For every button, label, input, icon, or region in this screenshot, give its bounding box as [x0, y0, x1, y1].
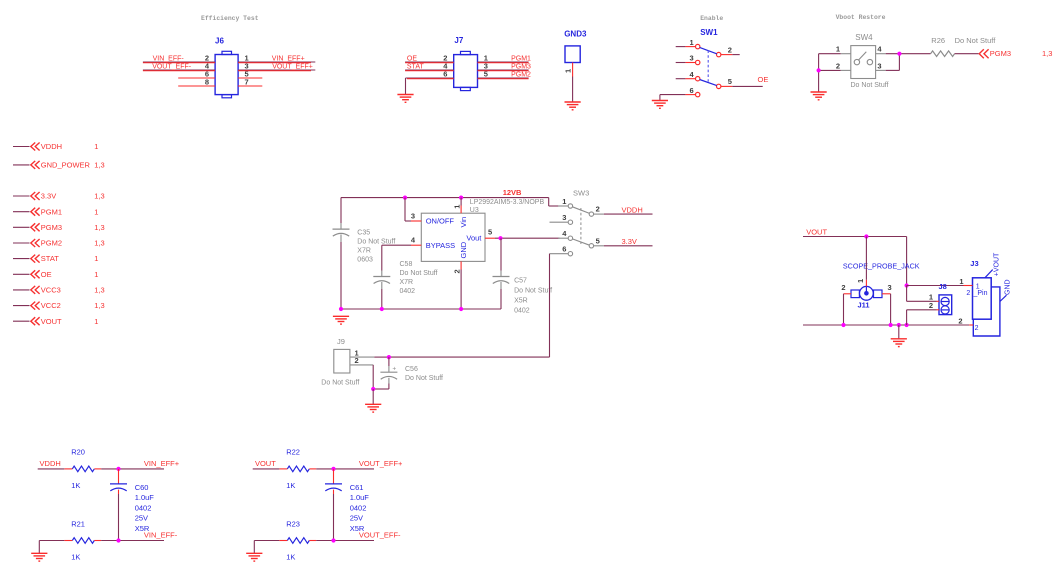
svg-text:1,3: 1,3	[94, 239, 104, 248]
ground at J7 pin 6	[397, 95, 413, 103]
net label OE at J7	[407, 55, 417, 62]
svg-text:OE: OE	[407, 55, 417, 62]
wire J7 pin 6 to ground	[406, 78, 454, 94]
svg-text:+: +	[392, 365, 396, 372]
wire R26 to PGM3 flag	[955, 53, 979, 55]
wire SW1 pin 6 to ground	[660, 95, 686, 101]
wire C57 bottom	[500, 289, 502, 309]
svg-text:STAT: STAT	[41, 254, 59, 263]
junction 12VB at pin3 riser	[403, 196, 407, 200]
svg-text:VCC2: VCC2	[41, 301, 61, 310]
svg-text:1: 1	[836, 45, 840, 54]
svg-text:C61: C61	[350, 483, 364, 492]
resistor R20	[64, 447, 101, 490]
connector J3	[958, 252, 1011, 336]
junction bus at J8 drop	[905, 323, 909, 327]
ground GND3	[565, 102, 581, 110]
net label PGM1 at J7	[511, 55, 531, 62]
wire Vin riser	[460, 198, 462, 206]
svg-text:J6: J6	[215, 37, 224, 46]
wire J9 pin 1 to net	[374, 356, 389, 358]
svg-text:VCC3: VCC3	[41, 286, 61, 295]
junction bus at ground stem	[897, 323, 901, 327]
wire VDDH from SW3 pin 2	[604, 213, 653, 215]
pin 2 GND of U3	[453, 261, 462, 273]
junction bus at J11 pin2	[841, 323, 845, 327]
net label VOUT_EFF-	[152, 63, 192, 70]
svg-text:X7R: X7R	[400, 279, 414, 286]
svg-text:R22: R22	[286, 447, 300, 456]
svg-text:1: 1	[94, 207, 98, 216]
ground at J9	[365, 404, 381, 412]
net flag STAT	[13, 254, 98, 263]
wire SW4 left pins to ground	[819, 54, 841, 92]
title Enable	[700, 15, 723, 22]
svg-text:PGM2: PGM2	[511, 71, 531, 78]
svg-text:OE: OE	[758, 75, 769, 84]
svg-text:1K: 1K	[71, 481, 80, 490]
svg-text:1,3: 1,3	[94, 223, 104, 232]
wire SW1 pin 1 stub	[676, 46, 686, 48]
svg-text:2: 2	[929, 301, 933, 310]
svg-text:VIN_EFF-: VIN_EFF-	[144, 531, 178, 540]
wire J8 pin 1 branch	[907, 286, 937, 302]
svg-text:PGM1: PGM1	[511, 55, 531, 62]
pins J7 right (1,3,5)	[484, 53, 488, 78]
wire PGM1 from J7 pin 1	[478, 61, 529, 64]
wire SW1 pin 3 stub	[676, 62, 686, 64]
net label VOUT_EFF+	[359, 459, 403, 468]
svg-text:1.0uF: 1.0uF	[350, 493, 370, 502]
junction gnd bus at C58	[380, 307, 384, 311]
svg-text:J11: J11	[858, 301, 870, 310]
svg-text:3.3V: 3.3V	[41, 192, 56, 201]
connector J6	[215, 37, 238, 98]
pins J7 left (2,4,6)	[443, 53, 448, 78]
svg-text:Do Not Stuff: Do Not Stuff	[955, 36, 997, 45]
wire C56 bottom to ground node	[373, 384, 389, 390]
resistor R22	[279, 447, 316, 490]
wire Vout to SW3 pin 4	[495, 237, 560, 239]
svg-text:1,3: 1,3	[94, 301, 104, 310]
svg-text:R23: R23	[286, 519, 300, 528]
svg-text:J7: J7	[454, 36, 463, 45]
wire C57 to Vout junction	[500, 238, 502, 270]
wire R23 to VOUT_EFF-	[316, 540, 374, 542]
svg-text:1.0uF: 1.0uF	[135, 493, 155, 502]
wire C61 to VOUT_EFF-	[333, 494, 335, 541]
svg-text:Vin: Vin	[459, 217, 468, 228]
wire 12VB top rail	[341, 198, 560, 206]
junction VOUT at J3 branch	[905, 283, 909, 287]
svg-text:2: 2	[958, 316, 962, 325]
svg-text:VOUT: VOUT	[255, 459, 276, 468]
svg-text:0402: 0402	[400, 288, 416, 295]
svg-text:PGM3: PGM3	[41, 223, 62, 232]
wire VOUT_EFF+ from J6 pin 3	[238, 69, 315, 72]
wire 12VB to pin 3	[405, 198, 411, 221]
svg-text:2: 2	[596, 205, 600, 214]
wire J11 pin 1 riser	[865, 237, 867, 280]
wire U3 ground bus	[341, 308, 501, 310]
junction 12VB at Vin riser	[459, 196, 463, 200]
junction VOUT_EFF+	[331, 467, 335, 471]
net flag VCC3	[13, 286, 105, 295]
svg-text:PGM3: PGM3	[990, 49, 1011, 58]
ground at U3 bus	[333, 316, 349, 324]
pin 4 BYPASS of U3	[411, 236, 421, 246]
ground at scope bus	[891, 339, 907, 347]
svg-text:VOUT: VOUT	[41, 317, 62, 326]
net label 12VB	[503, 188, 522, 197]
junction VIN_EFF+	[116, 467, 120, 471]
net flag OE	[13, 270, 98, 279]
wire C60 to VIN_EFF-	[118, 494, 120, 541]
svg-text:3: 3	[888, 283, 892, 292]
net label PGM2 at J7	[511, 71, 531, 78]
svg-text:SW4: SW4	[855, 33, 873, 42]
svg-text:12VB: 12VB	[503, 188, 522, 197]
svg-text:1: 1	[94, 270, 98, 279]
svg-text:VDDH: VDDH	[41, 142, 62, 151]
net flag VDDH	[13, 142, 98, 151]
svg-text:Do Not Stuff: Do Not Stuff	[357, 238, 395, 245]
svg-text:2: 2	[975, 325, 979, 332]
resistor R21	[64, 519, 101, 561]
svg-text:2: 2	[841, 283, 845, 292]
ground at R23	[246, 553, 262, 561]
svg-text:C57: C57	[514, 278, 527, 285]
net label VIN_EFF+	[144, 459, 180, 468]
svg-text:1: 1	[856, 279, 865, 283]
net flag 3.3V	[13, 192, 105, 201]
svg-text:3: 3	[562, 213, 566, 222]
svg-text:_Pin: _Pin	[973, 290, 988, 297]
svg-text:STAT: STAT	[407, 63, 425, 70]
net label VOUT	[806, 228, 827, 237]
net label OE at SW1	[758, 75, 769, 84]
wire VOUT_EFF- to J6 pin 4	[143, 69, 215, 72]
wire ground stem	[898, 325, 900, 339]
svg-text:1: 1	[94, 317, 98, 326]
svg-text:R26: R26	[931, 36, 945, 45]
svg-text:GND_POWER: GND_POWER	[41, 161, 91, 170]
net flag PGM3 chevron	[979, 49, 1011, 58]
svg-text:J8: J8	[939, 282, 947, 291]
title Efficiency Test	[201, 15, 259, 22]
svg-text:VOUT_EFF-: VOUT_EFF-	[152, 63, 192, 70]
switch SW4 (Do Not Stuff)	[836, 33, 889, 89]
svg-text:6: 6	[562, 245, 566, 254]
svg-text:3: 3	[411, 211, 415, 220]
svg-text:1: 1	[959, 277, 963, 286]
wire ground to R21	[39, 541, 64, 554]
svg-text:0402: 0402	[350, 503, 367, 512]
net label VOUT_EFF-	[359, 531, 401, 540]
wire to ground J9	[372, 389, 374, 404]
svg-text:VDDH: VDDH	[622, 205, 643, 214]
svg-text:Efficiency Test: Efficiency Test	[201, 15, 259, 22]
label Do Not Stuff R26	[955, 36, 997, 45]
pins J6 left (2,4,6,8)	[178, 53, 215, 86]
net label VIN_EFF+	[272, 55, 305, 62]
resistor R23	[279, 519, 316, 561]
junction gnd bus at C35	[339, 307, 343, 311]
ground at R21	[31, 553, 47, 561]
svg-text:25V: 25V	[135, 514, 148, 523]
capacitor C56 (Do Not Stuff)	[380, 365, 443, 383]
svg-text:1: 1	[94, 142, 98, 151]
net label VIN_EFF-	[153, 55, 185, 62]
wire OE to J7 pin 2	[405, 61, 454, 64]
svg-text:3: 3	[690, 54, 694, 63]
connector J9 (Do Not Stuff)	[321, 337, 374, 387]
svg-text:VIN_EFF+: VIN_EFF+	[144, 459, 180, 468]
svg-text:1K: 1K	[286, 481, 295, 490]
wire C35 top	[340, 198, 342, 223]
wire VIN_EFF+ from J6 pin 1	[238, 61, 315, 64]
svg-text:Do Not Stuff: Do Not Stuff	[405, 375, 443, 382]
wire J9 pin 2 down	[372, 365, 374, 389]
pin 3 ON/OFF of U3	[411, 211, 421, 221]
svg-text:J3: J3	[970, 259, 978, 268]
svg-text:0603: 0603	[357, 257, 373, 264]
svg-text:5: 5	[728, 77, 732, 86]
capacitor C60	[110, 469, 154, 533]
net label STAT at J7	[407, 63, 425, 70]
resistor R26 (Do Not Stuff)	[931, 36, 955, 57]
svg-text:SCOPE_PROBE_JACK: SCOPE_PROBE_JACK	[843, 261, 920, 270]
svg-text:Do Not Stuff: Do Not Stuff	[321, 380, 359, 387]
svg-text:1: 1	[94, 254, 98, 263]
op-amp U3 LP2992AIM5-3.3/NOPB body	[421, 199, 544, 261]
label SCOPE_PROBE_JACK	[843, 261, 920, 270]
pin 5 Vout of U3	[485, 228, 495, 239]
svg-text:R21: R21	[71, 519, 85, 528]
wire C35 bottom	[340, 242, 342, 309]
svg-text:BYPASS: BYPASS	[426, 241, 455, 250]
ground at SW4	[811, 92, 827, 100]
junction VOUT at J11 pin 1	[864, 234, 868, 238]
svg-text:C60: C60	[135, 483, 149, 492]
wire PGM3 from J7 pin 3	[478, 69, 529, 72]
net label PGM3 at J7	[511, 63, 531, 70]
net flag PGM2	[13, 239, 105, 248]
svg-text:PGM2: PGM2	[41, 239, 62, 248]
svg-text:C56: C56	[405, 366, 418, 373]
svg-text:X5R: X5R	[514, 298, 528, 305]
svg-text:Enable: Enable	[700, 15, 723, 22]
wire 3.3V from SW3 pin 5	[604, 245, 653, 247]
svg-text:+VOUT: +VOUT	[993, 252, 1000, 276]
junction at C56 top	[387, 355, 391, 359]
jack J11	[841, 279, 891, 310]
wire ground to R23	[254, 541, 279, 554]
svg-text:GND3: GND3	[564, 30, 587, 39]
svg-text:2: 2	[453, 269, 462, 273]
switch SW1	[685, 28, 732, 97]
wire VIN_EFF- to J6 pin 2	[143, 61, 215, 64]
svg-text:5: 5	[596, 236, 600, 245]
ground at SW1 pin 6	[652, 101, 668, 109]
title Vboot Restore	[836, 14, 886, 21]
net label VIN_EFF-	[144, 531, 178, 540]
net flag PGM1	[13, 207, 98, 216]
svg-text:8: 8	[205, 77, 209, 86]
svg-text:1K: 1K	[71, 553, 80, 562]
svg-text:6: 6	[690, 86, 694, 95]
capacitor C35 (Do Not Stuff)	[333, 223, 396, 264]
svg-text:Vboot Restore: Vboot Restore	[836, 14, 886, 21]
wire SW4 right pins joined	[886, 54, 931, 71]
svg-text:C58: C58	[400, 261, 413, 268]
net label 3.3V at SW3	[622, 237, 637, 246]
net label VOUT_EFF+	[272, 63, 313, 70]
net label VOUT	[255, 459, 276, 468]
svg-text:1K: 1K	[286, 553, 295, 562]
wire OE from SW1 pin 5	[732, 85, 762, 87]
wire GND3 to ground	[572, 77, 574, 102]
svg-text:1: 1	[564, 69, 573, 73]
net flag GND_POWER	[13, 161, 105, 170]
net flag VCC2	[13, 301, 105, 310]
wire SW3 pin 6 down to J9 net	[389, 254, 550, 357]
svg-text:VIN_EFF-: VIN_EFF-	[153, 55, 185, 62]
svg-text:C35: C35	[357, 229, 370, 236]
wire VOUT to R22	[253, 468, 280, 470]
svg-text:VOUT_EFF-: VOUT_EFF-	[359, 531, 401, 540]
svg-text:1,3: 1,3	[94, 192, 104, 201]
svg-text:2: 2	[355, 356, 359, 365]
svg-text:VOUT_EFF+: VOUT_EFF+	[359, 459, 403, 468]
junction SW4 right	[897, 52, 901, 56]
wire SW1 pin 2 stub	[732, 54, 739, 56]
svg-text:1,3: 1,3	[1042, 49, 1052, 58]
wire ground bus right	[803, 324, 969, 326]
svg-text:OE: OE	[41, 270, 52, 279]
svg-text:3: 3	[877, 61, 881, 70]
junction SW4 left	[817, 68, 821, 72]
wire R21 to VIN_EFF-	[101, 540, 164, 542]
svg-text:2: 2	[728, 45, 732, 54]
page ref 1,3 for PGM3	[1042, 49, 1052, 58]
svg-text:PGM1: PGM1	[41, 207, 62, 216]
svg-text:Do Not Stuff: Do Not Stuff	[851, 82, 889, 89]
svg-text:LP2992AIM5-3.3/NOPB: LP2992AIM5-3.3/NOPB	[470, 199, 545, 206]
junction VIN_EFF-	[116, 538, 120, 542]
wire R22 to VOUT_EFF+	[316, 468, 374, 470]
switch SW3	[550, 189, 604, 256]
svg-text:R20: R20	[71, 447, 85, 456]
svg-text:1: 1	[562, 197, 566, 206]
junction ground node J9	[371, 387, 375, 391]
svg-text:VIN_EFF+: VIN_EFF+	[272, 55, 305, 62]
svg-text:VOUT: VOUT	[806, 228, 827, 237]
svg-text:2: 2	[966, 290, 970, 297]
svg-text:PGM3: PGM3	[511, 63, 531, 70]
wire VDDH to R20	[38, 468, 65, 470]
connector J7	[454, 36, 478, 91]
wire pin 4 to C58	[382, 245, 411, 270]
capacitor C58 (Do Not Stuff)	[373, 261, 437, 295]
svg-text:SW1: SW1	[700, 28, 718, 37]
wire VOUT rail	[803, 237, 907, 286]
wire pin 2 to gnd bus	[460, 270, 462, 310]
junction gnd bus at U3 pin 2	[459, 307, 463, 311]
wire STAT to J7 pin 4	[405, 69, 454, 72]
capacitor C57 (Do Not Stuff)	[493, 271, 553, 315]
wire C58 bottom	[381, 289, 383, 309]
junction bus at J11 pin3	[889, 323, 893, 327]
svg-text:0402: 0402	[514, 308, 530, 315]
wire PGM2 from J7 pin 5	[478, 77, 529, 80]
svg-text:1: 1	[690, 38, 694, 47]
pins J6 right (1,3,5,7)	[238, 53, 262, 86]
pin 1 Vin of U3	[453, 205, 462, 214]
svg-text:ON/OFF: ON/OFF	[426, 216, 455, 225]
svg-text:2: 2	[836, 61, 840, 70]
svg-text:7: 7	[245, 77, 249, 86]
svg-text:25V: 25V	[350, 514, 363, 523]
svg-text:Do Not Stuff: Do Not Stuff	[400, 270, 438, 277]
svg-text:1: 1	[453, 205, 462, 209]
svg-text:VDDH: VDDH	[40, 459, 61, 468]
svg-text:VOUT_EFF+: VOUT_EFF+	[272, 63, 313, 70]
svg-text:1,3: 1,3	[94, 161, 104, 170]
wire SW1 pin 4 stub	[676, 78, 686, 80]
svg-text:Do Not Stuff: Do Not Stuff	[514, 288, 552, 295]
terminal block J8	[929, 282, 952, 315]
svg-text:J9: J9	[337, 337, 345, 346]
wire J11 pin 3 down	[890, 294, 892, 325]
junction VOUT_EFF-	[331, 538, 335, 542]
connector GND3	[564, 30, 587, 63]
capacitor C61	[325, 469, 369, 533]
net flag PGM3	[13, 223, 105, 232]
net label VDDH	[40, 459, 61, 468]
svg-text:0402: 0402	[135, 503, 152, 512]
wire R20 to VIN_EFF+	[101, 468, 164, 470]
svg-text:5: 5	[488, 228, 492, 237]
svg-text:Vout: Vout	[466, 233, 482, 242]
svg-text:X7R: X7R	[357, 248, 371, 255]
svg-text:SW3: SW3	[573, 189, 589, 198]
svg-text:1,3: 1,3	[94, 286, 104, 295]
wire J8 pin 2 branch	[907, 310, 937, 325]
svg-text:3.3V: 3.3V	[622, 237, 637, 246]
svg-text:GND: GND	[1004, 279, 1011, 295]
svg-text:GND: GND	[459, 241, 468, 258]
wire C56 top lead	[388, 357, 390, 366]
net flag VOUT	[13, 317, 98, 326]
wire VOUT to J3 pin 1	[907, 285, 964, 287]
junction Vout at C57	[498, 236, 502, 240]
net label VDDH at SW3	[622, 205, 643, 214]
wire J11 pin 2 down	[843, 294, 845, 325]
pin 1 of GND3	[564, 63, 573, 77]
